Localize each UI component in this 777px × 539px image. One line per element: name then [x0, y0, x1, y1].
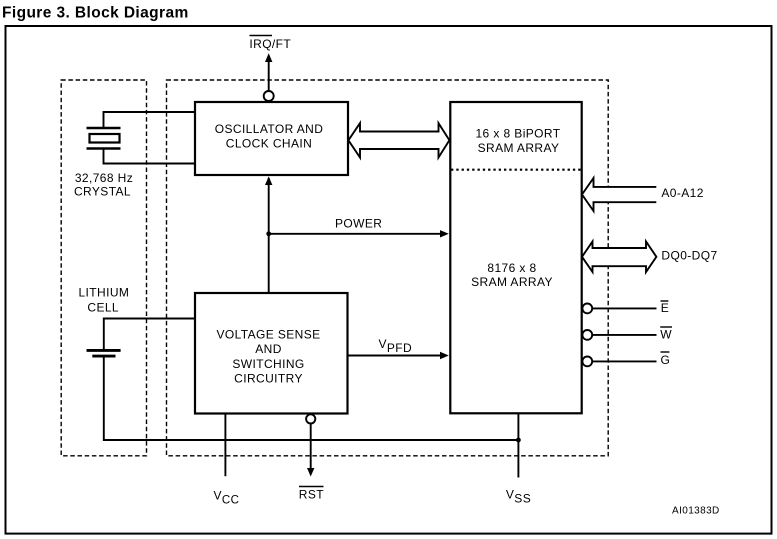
battery BT1 positive plate	[87, 349, 121, 352]
node junction on power line	[266, 231, 271, 236]
label G (overlined)	[661, 351, 670, 353]
oscillator block U1	[195, 102, 348, 175]
svg-text:CLOCK CHAIN: CLOCK CHAIN	[226, 136, 312, 150]
label RST (overlined)	[299, 486, 324, 488]
bidirectional bus oscillator to SRAM	[348, 123, 449, 157]
pin circle E	[582, 304, 592, 314]
svg-text:SWITCHING: SWITCHING	[232, 357, 304, 371]
wire POWER to SRAM	[269, 233, 442, 235]
svg-text:SRAM ARRAY: SRAM ARRAY	[471, 275, 553, 289]
svg-text:VOLTAGE SENSE: VOLTAGE SENSE	[216, 328, 320, 342]
svg-text:CIRCUITRY: CIRCUITRY	[234, 372, 303, 386]
crystal X1 body	[90, 134, 120, 143]
svg-text:LITHIUM: LITHIUM	[78, 286, 129, 300]
SRAM block U2	[450, 102, 581, 413]
svg-text:E: E	[661, 301, 669, 315]
svg-text:8176 x 8: 8176 x 8	[487, 261, 536, 275]
crystal X1 bottom plate	[87, 147, 121, 149]
wire voltage sense to oscillator (power up)	[268, 178, 270, 293]
wire battery bottom return to Vss node	[104, 357, 519, 440]
svg-text:DQ0-DQ7: DQ0-DQ7	[661, 248, 717, 262]
dashed device boundary (main)	[167, 80, 609, 456]
svg-text:32,768 Hz: 32,768 Hz	[75, 171, 133, 185]
wire crystal bottom	[104, 148, 196, 164]
data bus DQ0-DQ7	[582, 242, 656, 273]
arrowhead POWER into SRAM	[440, 230, 449, 237]
arrowhead into oscillator bottom	[265, 176, 272, 185]
arrowhead RST	[307, 468, 314, 477]
svg-text:POWER: POWER	[335, 216, 382, 230]
svg-text:RST: RST	[299, 488, 324, 502]
svg-text:A0-A12: A0-A12	[661, 186, 703, 200]
label IRQ/FT (IRQ overlined)	[250, 35, 273, 37]
pin circle W	[582, 330, 592, 340]
voltage sense block U3	[195, 293, 348, 414]
label E (overlined)	[661, 300, 669, 302]
svg-text:SRAM ARRAY: SRAM ARRAY	[478, 141, 560, 155]
wire VSS	[517, 414, 519, 478]
pin circle IRQ/FT on oscillator top	[264, 91, 274, 101]
svg-text:OSCILLATOR AND: OSCILLATOR AND	[215, 122, 324, 136]
svg-text:AND: AND	[255, 342, 282, 356]
pin circle RST	[306, 414, 315, 423]
svg-text:W: W	[660, 328, 672, 342]
svg-text:Figure 3. Block Diagram: Figure 3. Block Diagram	[2, 5, 189, 22]
svg-text:CELL: CELL	[87, 301, 119, 315]
wire VCC	[224, 414, 226, 476]
label W (overlined)	[660, 326, 672, 328]
wire W	[592, 334, 657, 336]
wire IRQ/FT	[268, 60, 270, 91]
svg-text:16 x 8 BiPORT: 16 x 8 BiPORT	[475, 127, 560, 141]
wire crystal top	[104, 112, 196, 129]
wire E	[592, 307, 657, 309]
arrowhead VPFD into SRAM	[440, 352, 449, 359]
svg-text:CRYSTAL: CRYSTAL	[74, 185, 131, 199]
svg-text:G: G	[661, 353, 671, 367]
crystal X1 top plate	[87, 127, 121, 129]
dashed battery-backed region (left)	[61, 80, 146, 456]
dotted partition in SRAM	[451, 169, 581, 171]
wire RST	[310, 423, 312, 469]
battery BT1 negative plate	[92, 355, 115, 358]
pin circle G	[582, 357, 592, 367]
wire battery top to voltage sense	[104, 319, 195, 351]
node junction Vss/battery return	[516, 438, 521, 443]
address bus A0-A12 into SRAM	[582, 178, 656, 211]
wire VPFD to SRAM	[349, 355, 442, 357]
svg-text:AI01383D: AI01383D	[672, 506, 720, 517]
arrowhead IRQ/FT	[265, 53, 272, 62]
wire G	[592, 360, 657, 362]
svg-text:IRQ/FT: IRQ/FT	[249, 37, 291, 51]
